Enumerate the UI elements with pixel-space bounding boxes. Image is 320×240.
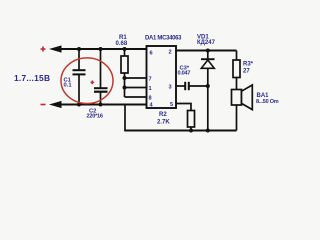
resistor R1	[116, 35, 129, 97]
IC DA1 MC34063	[147, 46, 177, 108]
node minus terminal mark	[41, 104, 46, 106]
resistor R3	[233, 51, 254, 90]
svg-text:1: 1	[149, 86, 152, 92]
svg-text:КД247: КД247	[197, 40, 216, 46]
svg-text:8...50 Om: 8...50 Om	[256, 99, 279, 105]
capacitor C3	[176, 66, 208, 91]
svg-text:3: 3	[169, 85, 172, 91]
input arrow +	[49, 45, 62, 52]
svg-text:8: 8	[149, 96, 152, 102]
resistor R2	[157, 104, 195, 131]
svg-text:2: 2	[169, 50, 172, 56]
svg-text:220*16: 220*16	[87, 114, 103, 120]
wire ground drop	[124, 105, 126, 131]
speaker BA1	[232, 85, 279, 131]
svg-text:0.1: 0.1	[64, 82, 73, 88]
junction C1 top	[77, 47, 81, 51]
junction pin1 branch	[123, 86, 127, 90]
junction C1 bottom	[77, 103, 81, 107]
wire bottom rail	[58, 104, 147, 106]
svg-text:R3*: R3*	[243, 62, 254, 68]
svg-text:R2: R2	[159, 112, 167, 118]
diode VD1	[197, 35, 216, 131]
capacitor C2 electrolytic	[87, 49, 108, 120]
junction diode top	[206, 49, 210, 53]
svg-text:27: 27	[243, 69, 250, 75]
wire bottom return	[124, 130, 236, 132]
svg-text:5: 5	[170, 102, 173, 108]
node plus terminal mark	[41, 47, 46, 52]
capacitor C1	[64, 49, 86, 105]
svg-text:6: 6	[150, 51, 153, 57]
node C2 polarity plus	[91, 81, 95, 85]
junction pin7 branch	[123, 76, 127, 80]
svg-text:1.7...15B: 1.7...15B	[14, 73, 50, 83]
svg-text:2.7K: 2.7K	[157, 120, 170, 126]
input arrow -	[49, 101, 62, 108]
svg-text:DA1 MC34063: DA1 MC34063	[145, 35, 182, 41]
junction R2 bottom	[189, 129, 193, 133]
wire pin1	[125, 87, 147, 89]
wire pin7	[125, 77, 147, 79]
svg-text:0.68: 0.68	[116, 41, 128, 47]
wire pin8	[125, 96, 147, 98]
node highlight ellipse	[61, 58, 113, 104]
wire top rail	[58, 48, 147, 50]
svg-text:7: 7	[149, 77, 152, 83]
junction R1 top	[123, 47, 127, 51]
junction C2 top	[99, 47, 103, 51]
junction diode bottom	[206, 129, 210, 133]
junction diode C3	[206, 84, 210, 88]
wire pin2 output	[176, 50, 237, 52]
junction C2 bottom	[99, 103, 103, 107]
svg-text:0.047: 0.047	[178, 70, 191, 76]
